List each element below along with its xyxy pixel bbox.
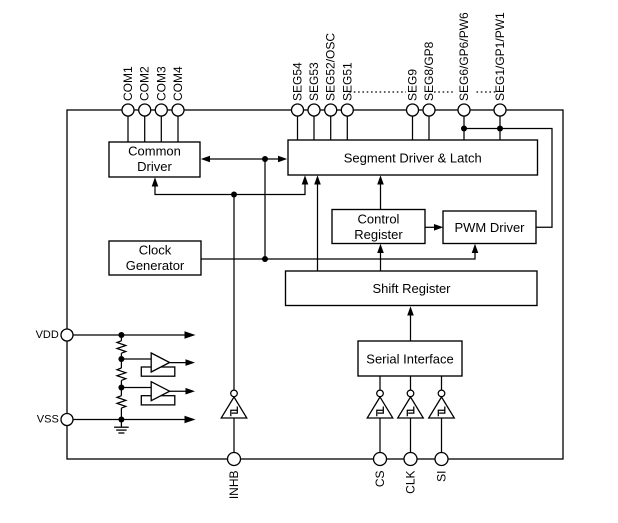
pin SI (435, 453, 448, 466)
wire VSS rail (73, 419, 186, 421)
node junction PW1 (497, 126, 503, 132)
wire R1 to tap1 (120, 353, 122, 368)
buffer U1 (151, 353, 169, 372)
pin SEG51 (341, 104, 353, 116)
block PWM Driver (443, 211, 536, 244)
wire SEG54 to Segment Driver (297, 110, 299, 140)
wire clock to bus (264, 159, 266, 259)
pin CLK (404, 453, 417, 466)
wire SEG53 to Segment Driver (313, 110, 315, 140)
wire Control Register to Segment Driver (380, 179, 382, 210)
resistor R3 (117, 396, 126, 408)
pin SEG1/GP1/PW1 (494, 104, 506, 116)
node junction on bidirectional bus (262, 156, 268, 162)
buffer U1 feedback box (141, 367, 175, 376)
pin SEG8/GP8 (423, 104, 435, 116)
wire buffer U2 output (170, 390, 187, 392)
buffer U2 feedback box (141, 396, 175, 405)
svg-text:Clock: Clock (139, 243, 172, 258)
wire SI pin to schmitt trigger (441, 376, 443, 390)
pin SEG9 (407, 104, 419, 116)
wire R2 to tap2 (120, 380, 122, 395)
block Common Driver (109, 142, 200, 177)
svg-text:SEG53: SEG53 (307, 62, 321, 101)
svg-text:SEG8/GP8: SEG8/GP8 (422, 41, 436, 101)
pin SEG54 (292, 104, 304, 116)
resistor R2 (117, 368, 126, 380)
pin CS (374, 453, 387, 466)
wire resistor ladder top (120, 335, 122, 341)
pin INHB (228, 453, 241, 466)
svg-text:Generator: Generator (126, 258, 185, 273)
svg-text:COM1: COM1 (121, 66, 135, 101)
wire tap2 to buffer U2 (121, 387, 151, 389)
pin COM1 (122, 104, 134, 116)
node junction clock line (262, 256, 268, 262)
pin VSS (61, 414, 73, 426)
wire SEG52/OSC to Segment Driver (330, 110, 332, 140)
pin COM4 (172, 104, 184, 116)
dotted separator SEG6..SEG1 (477, 91, 498, 93)
node junction INHB line (231, 192, 237, 198)
wire Shift Register to Segment Driver (317, 179, 319, 271)
pin VDD (61, 329, 73, 341)
svg-text:SEG1/GP1/PW1: SEG1/GP1/PW1 (493, 12, 507, 101)
pin COM3 (155, 104, 167, 116)
svg-text:SEG52/OSC: SEG52/OSC (324, 33, 338, 101)
wire Shift Register to Control Register (380, 248, 382, 272)
wire COM2 to Common Driver (144, 110, 146, 142)
chip outline (67, 110, 563, 459)
svg-text:SEG6/GP6/PW6: SEG6/GP6/PW6 (457, 12, 471, 101)
block Segment Driver & Latch (288, 140, 538, 175)
wire COM1 to Common Driver (127, 110, 129, 142)
svg-text:INHB: INHB (227, 471, 241, 500)
wire SEG1/GP1/PW1 to Segment Driver (499, 110, 501, 140)
block Shift Register (286, 271, 538, 306)
wire R3 to VSS rail (120, 408, 122, 419)
wire COM3 to Common Driver (160, 110, 162, 142)
block Control Register (332, 210, 425, 244)
svg-text:Segment Driver & Latch: Segment Driver & Latch (344, 151, 482, 166)
wire CS pin to schmitt trigger (379, 376, 381, 390)
wire SEG51 to Segment Driver (346, 110, 348, 140)
node tap2 (118, 385, 124, 391)
svg-text:CS: CS (373, 471, 387, 488)
svg-text:SEG51: SEG51 (340, 62, 354, 101)
svg-text:VSS: VSS (37, 414, 59, 426)
svg-text:Register: Register (354, 227, 403, 242)
pin SEG52/OSC (325, 104, 337, 116)
schmitt trigger U5 (CLK) (398, 390, 424, 418)
svg-text:SI: SI (435, 471, 449, 482)
dotted separator SEG51..SEG9 (350, 91, 407, 93)
wire Control Register to PWM Driver (425, 226, 439, 228)
wire SEG6/GP6/PW6 to Segment Driver (463, 110, 465, 140)
wire INHB pin to schmitt trigger (233, 195, 235, 391)
block Clock Generator (109, 241, 201, 275)
svg-text:VDD: VDD (36, 329, 59, 341)
svg-text:SEG9: SEG9 (406, 69, 420, 101)
schmitt trigger U3 (INHB) (221, 390, 247, 418)
wire VDD rail (73, 334, 186, 336)
svg-text:Driver: Driver (137, 159, 172, 174)
svg-text:COM2: COM2 (138, 66, 152, 101)
buffer U2 (151, 382, 169, 401)
pin COM2 (139, 104, 151, 116)
svg-text:COM4: COM4 (171, 66, 185, 101)
wire Serial Interface to Shift Register (410, 310, 412, 341)
wire INHB to Common Driver and Segment Driver (155, 179, 305, 195)
svg-text:Shift Register: Shift Register (372, 281, 451, 296)
wire COM4 to Common Driver (177, 110, 179, 142)
wire bidirectional Common Driver / Segment Driver (204, 158, 284, 160)
svg-text:Common: Common (128, 144, 181, 159)
svg-text:SEG54: SEG54 (291, 62, 305, 101)
schmitt trigger U6 (SI) (429, 390, 455, 418)
block Serial Interface (358, 341, 462, 376)
node junction PW6 (461, 126, 467, 132)
pin SEG6/GP6/PW6 (458, 104, 470, 116)
svg-text:Control: Control (358, 212, 400, 227)
wire SEG9 to Segment Driver (412, 110, 414, 140)
pin SEG53 (308, 104, 320, 116)
wire tap1 to buffer U1 (121, 358, 151, 360)
wire buffer U1 output (170, 362, 187, 364)
svg-text:Serial Interface: Serial Interface (366, 351, 453, 366)
node junction VSS / ladder bottom (118, 417, 124, 423)
resistor R1 (117, 341, 126, 353)
svg-text:COM3: COM3 (154, 66, 168, 101)
ground (114, 420, 129, 434)
schmitt trigger U4 (CS) (367, 390, 393, 418)
svg-text:PWM Driver: PWM Driver (454, 220, 525, 235)
dotted separator SEG8..SEG6 (434, 91, 456, 93)
wire CLK pin to schmitt trigger (410, 376, 412, 390)
node junction VDD / resistor ladder (118, 332, 124, 338)
wire Clock Generator to PWM Driver (201, 247, 475, 259)
node tap1 (118, 356, 124, 362)
svg-text:CLK: CLK (404, 471, 418, 494)
wire PWM Driver output to SEG pins (464, 129, 552, 228)
wire SEG8/GP8 to Segment Driver (428, 110, 430, 140)
